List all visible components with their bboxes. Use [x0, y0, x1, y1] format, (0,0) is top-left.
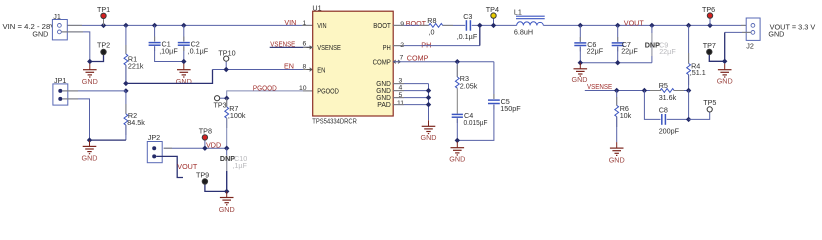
test point TP4 — [486, 5, 499, 25]
svg-text:GND: GND — [82, 77, 98, 86]
node R2/JP1 ground junction — [87, 137, 92, 142]
svg-text:,51.1: ,51.1 — [690, 68, 706, 77]
svg-text:VIN: VIN — [284, 18, 296, 27]
svg-text:TP7: TP7 — [703, 41, 716, 50]
node C4/C5 ground junction — [455, 138, 460, 143]
capacitor C6 — [574, 25, 603, 62]
capacitor C5 — [457, 62, 521, 141]
svg-text:JP2: JP2 — [148, 133, 160, 142]
node TP7/J2 ground junction — [722, 59, 727, 64]
svg-text:BOOT: BOOT — [373, 21, 391, 30]
pin GND 5 — [376, 92, 428, 102]
svg-text:2.05k: 2.05k — [460, 82, 478, 91]
connector JP1 — [53, 76, 68, 105]
svg-text:221k: 221k — [128, 61, 144, 70]
node JP1 pin1 junction — [123, 88, 128, 93]
svg-text:PGOOD: PGOOD — [253, 83, 277, 92]
node VIN rail junction at C1 — [152, 23, 157, 28]
capacitor C8 — [644, 91, 688, 136]
node VOUT rail junction at C7 — [615, 23, 620, 28]
svg-text:VOUT: VOUT — [177, 162, 198, 171]
svg-text:GND: GND — [768, 30, 784, 39]
svg-text:1: 1 — [303, 20, 307, 27]
svg-text:10: 10 — [299, 85, 307, 92]
svg-text:31.6k: 31.6k — [659, 93, 677, 102]
node VIN rail junction at C2 — [181, 23, 186, 28]
node C6 ground junction — [578, 60, 583, 65]
capacitor C2 — [178, 25, 209, 61]
ground symbol at C2 — [176, 64, 192, 86]
ground symbol at J1/TP2 — [82, 64, 98, 86]
wire C3 to TP4/L1 — [472, 24, 517, 26]
wire COMP net U1 pin7 to C5 — [393, 61, 494, 63]
pin COMP 7 — [373, 54, 429, 67]
wire JP2 pin2 VOUT stub — [156, 156, 183, 177]
node TP4 junction — [491, 23, 496, 28]
pin VSENSE 6 — [270, 39, 341, 52]
svg-text:TP2: TP2 — [97, 40, 110, 49]
node PH junction — [477, 23, 482, 28]
pin PAD 11 — [377, 100, 428, 109]
node PAD pin11 junction — [426, 102, 431, 107]
svg-text:22µF: 22µF — [621, 47, 638, 56]
svg-text:DNP: DNP — [645, 40, 660, 49]
test point TP8 — [199, 126, 212, 148]
connector J1 — [52, 12, 67, 40]
test point TP2 — [90, 40, 110, 61]
svg-text:,0.1µF: ,0.1µF — [188, 46, 209, 55]
node COMP/R3 junction — [455, 59, 460, 64]
capacitor C3 — [457, 12, 478, 41]
node GND pin4 junction — [426, 88, 431, 93]
node R7/C10 junction — [224, 146, 229, 151]
connector JP2 — [147, 133, 162, 163]
wire J2 pin2 to ground — [725, 31, 751, 33]
svg-text:22µF: 22µF — [587, 47, 604, 56]
pin GND 4 — [376, 85, 428, 96]
node VIN rail junction at R1 — [123, 23, 128, 28]
svg-text:7: 7 — [400, 54, 404, 61]
svg-text:VSENSE: VSENSE — [317, 43, 341, 52]
pin EN 8 — [303, 63, 326, 74]
resistor R7 — [225, 98, 246, 148]
svg-text:6.8uH: 6.8uH — [514, 28, 533, 37]
wire VIN rail J1 to U1 — [62, 24, 313, 26]
ground symbol at U1 — [421, 120, 437, 142]
test point TP7 — [703, 41, 725, 61]
svg-text:0.015µF: 0.015µF — [464, 118, 489, 127]
svg-text:22µF: 22µF — [659, 47, 676, 56]
svg-text:200pF: 200pF — [659, 126, 680, 135]
node J1/TP2 ground junction — [87, 59, 92, 64]
svg-text:PAD: PAD — [377, 100, 391, 109]
wire L1 to VOUT rail and J2 — [543, 24, 751, 26]
svg-text:TP9: TP9 — [196, 170, 209, 179]
node TP3/R7 junction — [224, 96, 229, 101]
svg-text:PH: PH — [421, 40, 431, 49]
node TP8/VDD junction — [202, 146, 207, 151]
wire EN net from R1/R2 junction to U1 pin 8 — [213, 69, 314, 71]
svg-text:GND: GND — [82, 154, 98, 163]
node VOUT rail junction at C9 — [649, 23, 654, 28]
svg-text:,0.1µF: ,0.1µF — [457, 32, 478, 41]
svg-text:,100k: ,100k — [228, 111, 246, 120]
svg-text:GND: GND — [609, 155, 625, 164]
svg-text:11: 11 — [397, 100, 404, 107]
svg-text:TPS54334DRCR: TPS54334DRCR — [312, 116, 357, 125]
resistor R1 — [124, 25, 144, 83]
wire BOOT net U1 pin9 to R8 — [393, 24, 429, 26]
svg-text:TP8: TP8 — [199, 126, 212, 135]
node VSENSE/C8 junction — [642, 88, 647, 93]
capacitor C4 — [452, 111, 488, 140]
svg-text:C3: C3 — [463, 12, 472, 21]
svg-text:GND: GND — [572, 75, 588, 84]
pin PGOOD 10 — [299, 85, 339, 96]
resistor R5 — [659, 81, 677, 102]
svg-text:GND: GND — [176, 77, 192, 86]
wire JP1 pin1 to R1/R2 node — [62, 90, 126, 92]
svg-text:GND: GND — [449, 154, 465, 163]
svg-text:,1µF: ,1µF — [232, 161, 247, 170]
op-amp U1 TPS54334DRCR body — [312, 3, 393, 125]
svg-text:VOUT: VOUT — [624, 19, 645, 28]
svg-text:TP6: TP6 — [702, 5, 715, 14]
svg-text:EN: EN — [284, 62, 294, 71]
svg-text:TP3: TP3 — [214, 101, 227, 110]
node GND pin5 junction — [426, 95, 431, 100]
node C7 ground junction — [615, 60, 620, 65]
connector J2 — [746, 18, 760, 51]
resistor R2 — [90, 91, 146, 140]
svg-text:BOOT: BOOT — [406, 19, 427, 28]
pin VIN 1 — [284, 18, 326, 30]
svg-text:GND: GND — [717, 77, 733, 86]
pin GND 3 — [376, 78, 428, 89]
node VOUT rail junction at C6 — [578, 23, 583, 28]
capacitor C9 DNP — [645, 25, 677, 62]
node TP9/C10 ground junction — [224, 189, 229, 194]
node VOUT rail junction at TP6 — [707, 23, 712, 28]
ground symbol at C6 — [572, 63, 588, 84]
svg-text:GND: GND — [219, 205, 235, 214]
node VOUT rail junction at R4 — [686, 23, 691, 28]
svg-text:,10µF: ,10µF — [159, 46, 178, 55]
node VIN rail junction at TP1 — [101, 23, 106, 28]
inductor L1 — [514, 7, 545, 36]
svg-text:GND: GND — [421, 133, 437, 142]
wire PH net to U1 pin2 — [393, 45, 480, 47]
svg-text:8: 8 — [303, 63, 307, 70]
resistor R4 — [687, 25, 706, 90]
node C1/C2 ground junction — [181, 59, 186, 64]
ground symbol at R6 — [609, 142, 625, 164]
wire VSENSE net row — [585, 90, 661, 92]
svg-text:VSENSE: VSENSE — [270, 39, 295, 48]
wire R4/R5 junction to C8 — [688, 91, 690, 120]
svg-text:GND: GND — [32, 30, 48, 39]
pin BOOT 9 — [373, 19, 426, 30]
test point TP10 — [218, 49, 235, 70]
wire R5 to R4 junction — [674, 90, 689, 92]
capacitor C7 — [612, 25, 639, 62]
svg-text:VIN: VIN — [317, 21, 326, 30]
svg-text:PH: PH — [383, 43, 391, 52]
node R1 bottom junction — [123, 81, 128, 86]
wire GND pins bus — [428, 84, 430, 121]
svg-text:J2: J2 — [746, 42, 754, 51]
svg-text:C8: C8 — [659, 105, 668, 114]
svg-text:VSENSE: VSENSE — [587, 82, 612, 91]
resistor R3 — [455, 62, 477, 114]
wire R8 to C3 — [443, 24, 466, 26]
resistor R8 — [427, 16, 442, 36]
svg-text:150pF: 150pF — [500, 104, 521, 113]
wire output caps ground bus — [580, 62, 652, 64]
test point TP3 — [214, 96, 227, 110]
test point TP9 — [196, 170, 227, 191]
svg-text:COMP: COMP — [373, 58, 391, 67]
pin arrow EN input — [307, 68, 313, 71]
wire J1 pin2 to GND junction — [61, 32, 89, 62]
ground symbol at C4 — [449, 142, 465, 164]
wire VDD row JP2 pin1 to R7/C10 — [164, 147, 227, 149]
svg-text:84.5k: 84.5k — [127, 118, 145, 127]
node R4/R5 junction — [686, 88, 691, 93]
node C8/TP5 junction — [686, 117, 691, 122]
ground symbol at TP9 — [219, 192, 235, 215]
node VSENSE/R6 junction — [614, 88, 619, 93]
test point TP1 — [97, 5, 110, 25]
svg-text:9: 9 — [400, 21, 404, 28]
pin PH 2 — [383, 40, 432, 52]
wire JP1 pin2 to ground — [62, 99, 89, 140]
svg-text:TP5: TP5 — [703, 98, 716, 107]
capacitor C1 — [149, 25, 184, 61]
svg-text:PGOOD: PGOOD — [317, 87, 339, 96]
capacitor C10 DNP — [220, 148, 248, 191]
svg-text:,0: ,0 — [429, 28, 435, 37]
wire PGOOD net from U1 pin 10 to TP3/R7 — [227, 91, 313, 98]
svg-text:L1: L1 — [514, 7, 522, 16]
svg-text:EN: EN — [317, 66, 325, 75]
svg-text:10k: 10k — [620, 111, 632, 120]
test point TP6 — [702, 5, 715, 25]
node EN/TP10 junction — [224, 67, 229, 72]
svg-text:6: 6 — [303, 40, 307, 47]
resistor R6 — [615, 91, 632, 143]
ground symbol at TP7 — [717, 64, 733, 86]
ground symbol at JP1/R2 — [82, 140, 98, 162]
test point TP5 — [689, 98, 717, 119]
